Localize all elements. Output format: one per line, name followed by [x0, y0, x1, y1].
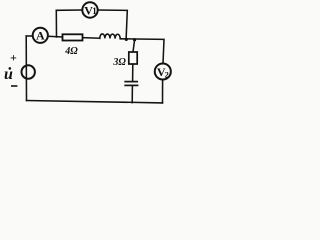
svg-text:2: 2	[165, 69, 169, 79]
svg-text:A: A	[36, 29, 45, 43]
svg-text:4Ω: 4Ω	[64, 46, 78, 57]
svg-text:1: 1	[92, 6, 97, 16]
svg-text:u: u	[4, 66, 13, 83]
svg-text:3Ω: 3Ω	[112, 57, 126, 68]
svg-text:+: +	[10, 50, 17, 64]
